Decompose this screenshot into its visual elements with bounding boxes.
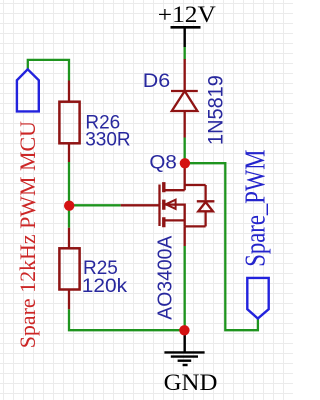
- svg-text:Q8: Q8: [149, 152, 176, 173]
- svg-text:330R: 330R: [85, 129, 130, 150]
- svg-text:AO3400A: AO3400A: [154, 235, 176, 320]
- svg-text:1N5819: 1N5819: [204, 75, 228, 145]
- svg-text:D6: D6: [143, 71, 170, 92]
- svg-text:+12V: +12V: [158, 2, 216, 28]
- svg-text:GND: GND: [164, 371, 218, 396]
- svg-text:Spare_PWM: Spare_PWM: [239, 150, 271, 267]
- svg-text:120k: 120k: [82, 276, 128, 297]
- svg-text:Spare 12kHz PWM MCU: Spare 12kHz PWM MCU: [15, 121, 40, 348]
